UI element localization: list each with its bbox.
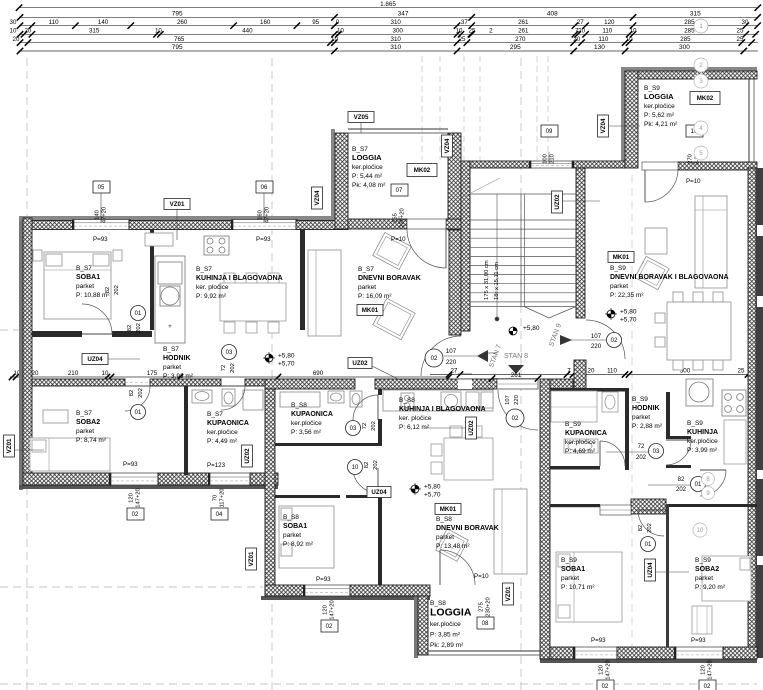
facade strip left outer — [19, 216, 23, 490]
svg-text:+5,80: +5,80 — [620, 309, 637, 316]
svg-text:VZ01: VZ01 — [6, 438, 13, 453]
wall B_S7 bottom middle — [158, 473, 210, 485]
door B_S7 soba1 01 upper — [82, 304, 112, 334]
furniture armchair B_S9 — [635, 256, 669, 289]
wall B_S9 bottom west — [550, 647, 575, 659]
svg-text:KUPAONICA: KUPAONICA — [207, 420, 249, 427]
wall B_S7 bottom west — [23, 473, 111, 485]
dim extension line x=537 — [536, 56, 538, 160]
door band stan8 entry — [497, 379, 538, 389]
staircase treads — [463, 178, 576, 321]
svg-text:107: 107 — [505, 395, 511, 405]
wall B_S8 top middle — [375, 379, 497, 389]
facade strip loggia B_S9 top — [621, 67, 757, 71]
wall B_S8 soba1 bottom west — [265, 585, 305, 596]
svg-text:300: 300 — [393, 28, 404, 35]
svg-text:25: 25 — [459, 36, 466, 43]
svg-text:Pk: 4,08 m²: Pk: 4,08 m² — [352, 182, 386, 189]
door B_S9 soba2 — [700, 470, 726, 496]
svg-text:25: 25 — [737, 28, 744, 35]
svg-text:25: 25 — [737, 36, 744, 43]
wall B_S8 B_S9 divider — [540, 379, 550, 659]
window tag 10 loggia B_S9 — [686, 125, 703, 165]
svg-text:440: 440 — [242, 28, 253, 35]
svg-text:MK01: MK01 — [440, 506, 457, 513]
wall loggia B_S7 bottom east stub — [446, 219, 461, 229]
room label B_S7 SOBA1 — [76, 265, 110, 299]
svg-text:B_S8: B_S8 — [399, 397, 415, 404]
window tag 06 — [256, 181, 273, 223]
svg-text:82: 82 — [678, 477, 685, 483]
svg-text:160: 160 — [258, 210, 264, 220]
svg-text:27: 27 — [451, 368, 458, 375]
door B_S9 loggia — [642, 162, 678, 202]
facade strip bottom B_S9 — [540, 659, 757, 663]
tag UZ02 stair2 — [466, 417, 477, 439]
svg-text:117+20: 117+20 — [220, 488, 226, 507]
svg-text:120: 120 — [323, 605, 329, 615]
svg-text:parket: parket — [695, 575, 713, 582]
svg-text:VZ04: VZ04 — [314, 190, 321, 205]
svg-text:UZ04: UZ04 — [371, 489, 387, 496]
dims 82/202 B_S9 soba1 door — [638, 523, 653, 533]
furniture sofa B_S7 dnevni — [308, 250, 341, 336]
svg-text:P: 3,85 m²: P: 3,85 m² — [430, 632, 461, 639]
wall loggia B_S7 west — [335, 133, 348, 229]
svg-text:02: 02 — [431, 356, 438, 362]
dim line middle 690 — [275, 370, 452, 380]
furniture kitchen B_S9 — [578, 379, 746, 464]
svg-text:147+20: 147+20 — [606, 660, 612, 680]
svg-text:B_S7: B_S7 — [76, 410, 92, 417]
svg-text:P=10: P=10 — [391, 236, 406, 243]
grid axis line y=330 left margin — [0, 329, 23, 331]
door circle 02 stan9 entry — [607, 333, 622, 348]
svg-text:B_S8: B_S8 — [283, 514, 299, 521]
svg-text:02: 02 — [326, 624, 333, 630]
tag MK01 B_S9 — [608, 252, 634, 263]
svg-text:parket: parket — [632, 414, 650, 421]
grid axis line y=684 — [0, 683, 757, 685]
svg-text:82: 82 — [638, 525, 644, 531]
furniture dining table B_S8 — [431, 426, 493, 480]
partition B_S9 kupaonica south east — [625, 466, 629, 470]
furniture dresser B_S7 soba2 — [43, 410, 68, 423]
tag VZ04 stair west — [442, 135, 453, 157]
wall stairwell top east of door — [572, 161, 625, 168]
svg-text:P: 22,35 m²: P: 22,35 m² — [610, 292, 644, 299]
svg-text:202: 202 — [676, 487, 687, 493]
svg-text:P: 16,09 m²: P: 16,09 m² — [358, 293, 392, 300]
svg-text:120: 120 — [701, 665, 707, 675]
window tag 02 B_S9 soba1 — [597, 660, 614, 690]
room label B_S9 LOGGIA top — [644, 85, 678, 128]
window 06 B_S7 kitchen — [231, 220, 298, 230]
svg-text:20: 20 — [24, 28, 31, 35]
tag MK01 B_S7 — [357, 305, 383, 316]
svg-text:10: 10 — [337, 28, 344, 35]
dimension line row6 — [17, 44, 758, 54]
partition B_S7 kitchen/dnevni — [300, 229, 305, 330]
svg-text:parket: parket — [163, 364, 181, 371]
wall stairwell top west of door — [470, 161, 531, 168]
dims 82/202 B_S9 kuhinja — [648, 477, 690, 493]
dims 107/220 stan9 entry — [570, 333, 606, 350]
door B_S7 hodnik 01 lower — [125, 386, 150, 411]
dim extension line x=464 — [463, 56, 465, 160]
svg-text:P=93: P=93 — [123, 461, 138, 468]
svg-text:25: 25 — [469, 28, 476, 35]
svg-text:202: 202 — [114, 285, 120, 295]
door band B_S9 soba1 — [600, 505, 631, 515]
tag VZ01 top wall — [164, 199, 190, 210]
wall B_S8 west — [265, 389, 275, 596]
svg-text:02: 02 — [512, 416, 519, 422]
svg-text:30: 30 — [10, 19, 17, 26]
svg-text:B_S7: B_S7 — [352, 146, 368, 153]
svg-text:+5,70: +5,70 — [278, 361, 295, 368]
wall B_S7 soba2 north east2 — [245, 379, 265, 386]
axis bubble 5 — [694, 146, 708, 160]
grid axis line y=587 — [0, 586, 263, 588]
svg-text:UZ04: UZ04 — [87, 356, 103, 363]
svg-text:09: 09 — [546, 129, 553, 135]
leader VZ05 — [360, 122, 362, 133]
svg-text:202: 202 — [636, 455, 647, 461]
room label B_S9 DNEVNI BORAVAK I BLAGOVAONA — [610, 265, 729, 299]
furniture bed B_S8 soba1 — [279, 506, 334, 568]
svg-text:05: 05 — [98, 185, 105, 191]
svg-text:ker.pločice: ker.pločice — [430, 621, 461, 628]
entry triangle stan7 — [477, 350, 488, 362]
leader UZ02 stair — [563, 200, 600, 202]
svg-text:270: 270 — [515, 36, 526, 43]
svg-text:220: 220 — [514, 395, 520, 405]
wall right outer — [748, 168, 756, 658]
svg-text:20: 20 — [13, 36, 20, 43]
svg-text:parket: parket — [76, 428, 94, 435]
svg-text:408: 408 — [547, 11, 558, 18]
svg-text:DNEVNI BORAVAK: DNEVNI BORAVAK — [436, 525, 499, 532]
wall B_S7 top segment east — [296, 221, 348, 230]
svg-text:Pk: 4,21 m²: Pk: 4,21 m² — [644, 121, 678, 128]
leader 05 — [100, 193, 102, 217]
window 02 B_S9 soba1 — [573, 647, 619, 659]
door B_S8 soba1 10 — [353, 468, 378, 493]
partition B_S7 kitchen west — [150, 229, 154, 330]
svg-text:UZ02: UZ02 — [352, 360, 368, 367]
svg-text:310: 310 — [390, 44, 401, 51]
svg-text:140: 140 — [98, 19, 109, 26]
svg-text:P: 9,20 m²: P: 9,20 m² — [695, 584, 726, 591]
svg-text:B_S9: B_S9 — [632, 396, 648, 403]
tag MK02 B_S7 — [407, 164, 437, 177]
svg-text:ker. pločice: ker. pločice — [399, 415, 432, 422]
svg-text:ker.pločice: ker.pločice — [644, 103, 675, 110]
loggia B_S9 east glazing — [749, 79, 754, 162]
svg-text:KUHINJA: KUHINJA — [687, 429, 718, 436]
tag VZ01 B_S9 divider — [503, 583, 514, 605]
right facade dark strip — [756, 168, 763, 658]
window tag 07 — [391, 184, 408, 228]
svg-text:02: 02 — [132, 512, 139, 518]
svg-text:KUPAONICA: KUPAONICA — [565, 430, 607, 437]
tag VZ05 — [348, 112, 374, 123]
furniture bed B_S9 soba2 — [692, 556, 751, 634]
svg-text:UZ02: UZ02 — [554, 194, 561, 210]
svg-text:270: 270 — [688, 154, 694, 164]
svg-text:315: 315 — [690, 11, 701, 18]
svg-text:100: 100 — [543, 154, 549, 164]
svg-text:10: 10 — [456, 28, 463, 35]
svg-text:P=10: P=10 — [474, 573, 489, 580]
svg-text:KUPAONICA: KUPAONICA — [291, 411, 333, 418]
partition B_S8 soba1 north east — [346, 495, 380, 498]
svg-text:P: 3,56 m²: P: 3,56 m² — [291, 429, 322, 436]
furniture bed B_S9 soba1 — [556, 552, 622, 622]
svg-text:20: 20 — [573, 36, 580, 43]
dimension line row5 — [13, 36, 758, 46]
svg-text:P: 3,99 m²: P: 3,99 m² — [687, 447, 718, 454]
svg-text:B_S7: B_S7 — [163, 346, 179, 353]
svg-text:690: 690 — [313, 370, 324, 377]
svg-text:B_S8: B_S8 — [291, 402, 307, 409]
svg-text:VZ01: VZ01 — [505, 586, 512, 601]
partition B_S9 hodnik east — [666, 392, 670, 439]
svg-text:120: 120 — [129, 493, 135, 503]
dims 107/220 stan8 entry — [505, 395, 520, 405]
svg-text:SOBA2: SOBA2 — [695, 566, 719, 573]
dims 72/202 B_S8 kupaonica door — [362, 421, 377, 431]
elevation marker B_S8 — [409, 483, 441, 499]
elevation marker B_S9 — [605, 308, 637, 324]
svg-text:SOBA1: SOBA1 — [561, 566, 585, 573]
room label B_S7 LOGGIA — [352, 146, 386, 189]
door D9 stair entry — [529, 161, 574, 168]
wall loggia B_S7 bottom west of door — [348, 219, 407, 229]
window tag 09 — [541, 125, 558, 164]
partition B_S8 soba1 north — [275, 495, 340, 498]
furniture armchair1 B_S7 dnevni — [373, 232, 412, 269]
furniture kitchen counter B_S7 — [155, 256, 185, 343]
svg-text:P: 3,93 m²: P: 3,93 m² — [163, 373, 194, 380]
svg-text:P: 2,88 m²: P: 2,88 m² — [632, 423, 663, 430]
svg-text:255: 255 — [393, 213, 399, 223]
wall B_S8 top west — [265, 379, 355, 389]
dims 82/202 B_S8 soba1 door — [364, 460, 379, 470]
wall B_S8 loggia west — [418, 596, 428, 655]
svg-text:UZ02: UZ02 — [468, 420, 475, 436]
svg-text:2: 2 — [489, 28, 493, 35]
svg-text:03: 03 — [653, 449, 660, 455]
svg-text:P=93: P=93 — [93, 236, 108, 243]
wall B_S9 bottom middle — [617, 647, 676, 659]
grid axis line x=521 — [520, 58, 522, 690]
svg-text:202: 202 — [647, 523, 653, 533]
svg-text:10: 10 — [630, 28, 637, 35]
room label B_S7 KUHINJA I BLAGOVAONA — [196, 266, 283, 300]
facade strip bottom B_S8 soba1 — [261, 596, 430, 600]
svg-text:LOGGIA: LOGGIA — [352, 153, 382, 162]
loggia B_S7 open parapet — [348, 129, 448, 133]
door B_S7 loggia — [407, 219, 446, 268]
door B_S7 kupaonica 03 — [221, 386, 245, 410]
svg-text:0: 0 — [336, 19, 340, 26]
grid axis line x=632 — [631, 175, 633, 648]
door B_S9 soba1 01 — [638, 510, 664, 536]
svg-text:P: 10,71 m²: P: 10,71 m² — [561, 584, 595, 591]
wall B_S7 dnevni east — [449, 230, 461, 335]
axis bubble 9 — [702, 487, 715, 500]
svg-text:10: 10 — [626, 36, 633, 43]
dim extension line x=548 — [547, 56, 549, 160]
svg-text:20: 20 — [588, 368, 595, 375]
axis bubble 10 — [693, 523, 707, 537]
grid axis line x=27 — [26, 58, 28, 690]
window tag 05 — [93, 181, 110, 223]
dim 261 stan8 — [489, 372, 541, 382]
room label B_S8 KUHINJA I BLAGOVAONA — [399, 397, 486, 431]
svg-text:B_S8: B_S8 — [436, 516, 452, 523]
room label B_S9 KUHINJA — [687, 420, 718, 454]
svg-text:ker. pločice: ker. pločice — [196, 284, 229, 291]
svg-text:7: 7 — [567, 368, 571, 375]
wall B_S7 soba2 north east — [150, 379, 221, 386]
svg-text:37: 37 — [461, 19, 468, 26]
svg-text:LOGGIA: LOGGIA — [430, 607, 472, 619]
dimension line row4 — [10, 28, 759, 38]
svg-text:HODNIK: HODNIK — [163, 355, 191, 362]
svg-text:72: 72 — [362, 423, 368, 429]
svg-text:ker.pločice: ker.pločice — [352, 164, 383, 171]
entry triangle stan7 line — [486, 352, 497, 354]
door circle 01 B_S9 kuhinja — [691, 477, 706, 492]
door B_S8 loggia — [440, 550, 475, 585]
svg-text:VZ04: VZ04 — [600, 118, 607, 133]
svg-text:parket: parket — [436, 534, 454, 541]
svg-text:SOBA1: SOBA1 — [76, 274, 100, 281]
axis bubble 1 — [694, 19, 708, 33]
svg-text:160: 160 — [260, 19, 271, 26]
svg-text:300: 300 — [679, 44, 690, 51]
furniture wardrobe B_S9 dnevni — [695, 196, 727, 288]
step threshold stan7 landing — [458, 374, 472, 389]
svg-text:DNEVNI BORAVAK: DNEVNI BORAVAK — [358, 275, 421, 282]
svg-text:P=123: P=123 — [207, 462, 226, 469]
door circle 01 B_S9 soba1 — [641, 537, 656, 552]
svg-text:P: 13,48 m²: P: 13,48 m² — [436, 543, 470, 550]
svg-text:120: 120 — [604, 19, 615, 26]
grid axis line x=272 — [271, 58, 273, 690]
svg-text:110: 110 — [602, 28, 612, 35]
partition B_S9 kupaonica north — [550, 388, 628, 392]
facade strip loggia B_S9 west — [621, 67, 625, 168]
svg-text:1.865: 1.865 — [380, 1, 396, 8]
dims 82/202 B_S7 soba1 door — [105, 285, 120, 295]
window 02 B_S7 soba2 — [109, 473, 160, 485]
tag UZ02 B_S7 kupaonica — [242, 445, 253, 467]
wall B_S9 soba north hatch — [631, 499, 666, 514]
dim extension line x=440 — [439, 56, 441, 160]
room label B_S8 SOBA1 — [283, 514, 314, 548]
tag MK01 B_S8 — [435, 504, 461, 515]
room label B_S8 DNEVNI BORAVAK — [436, 516, 499, 550]
wall stairwell west — [461, 161, 470, 331]
door circle 10 B_S8 soba1 — [348, 460, 363, 475]
svg-text:110: 110 — [49, 19, 59, 26]
svg-text:UZ04: UZ04 — [647, 562, 654, 578]
wall B_S7 top segment middle — [129, 221, 233, 230]
tag UZ02 stair — [552, 191, 563, 213]
svg-text:95: 95 — [312, 19, 319, 26]
svg-text:06: 06 — [261, 185, 268, 191]
wall stairwell east — [576, 168, 585, 318]
svg-text:20: 20 — [32, 370, 39, 377]
svg-text:295: 295 — [510, 44, 521, 51]
wall loggia B_S7 east — [448, 133, 461, 230]
door B_S8 kupaonica 03 — [353, 395, 378, 420]
svg-text:72: 72 — [638, 444, 645, 450]
room label B_S8 KUPAONICA — [291, 402, 333, 436]
door B_S9 kuhinja 03 — [666, 440, 691, 465]
svg-text:230+20: 230+20 — [486, 597, 492, 617]
door circle 01 B_S7 hodnik — [131, 405, 146, 420]
furniture dining table B_S7 — [220, 273, 286, 333]
door circle 01 B_S7 soba1 — [131, 306, 146, 321]
tag UZ04 B_S9 — [645, 559, 656, 581]
svg-text:MK02: MK02 — [414, 167, 431, 174]
svg-text:202: 202 — [371, 421, 377, 431]
svg-text:10: 10 — [331, 36, 338, 43]
window tag 04 B_S7 kupaonica — [211, 488, 228, 520]
svg-text:P: 5,62 m²: P: 5,62 m² — [644, 112, 675, 119]
partition B_S7 soba1 south east — [112, 331, 152, 337]
loggia B_S8 open parapet — [428, 651, 540, 655]
elevation marker B_S7 — [263, 352, 295, 368]
wall B_S9 soba1 north thin — [550, 504, 600, 507]
facade strip loggia B_S8 west — [414, 596, 418, 658]
window tag 02 B_S9 soba2 — [699, 660, 716, 690]
svg-text:VZ01: VZ01 — [170, 201, 185, 208]
wall B_S7 top segment west — [23, 221, 74, 230]
dimension line row3 — [10, 19, 761, 29]
svg-text:110: 110 — [607, 368, 617, 375]
svg-text:10: 10 — [697, 528, 704, 534]
svg-text:*: * — [168, 323, 172, 334]
dim line left apartment 10/20/210/10/175 — [9, 370, 278, 380]
svg-text:ker.pločice: ker.pločice — [291, 420, 322, 427]
svg-text:70: 70 — [213, 495, 219, 501]
axis bubble 2 — [694, 58, 708, 72]
dim line right apartment 27/7/20/110/300/25 — [430, 368, 757, 378]
svg-text:01: 01 — [645, 542, 652, 548]
svg-text:47+20: 47+20 — [102, 207, 108, 223]
svg-text:03: 03 — [350, 426, 357, 432]
svg-text:MK02: MK02 — [697, 95, 714, 102]
wall loggia B_S9 bottom east of door — [678, 162, 757, 170]
svg-text:B_S9: B_S9 — [695, 557, 711, 564]
room label B_S9 SOBA2 — [695, 557, 726, 591]
axis bubble 4 — [694, 121, 708, 135]
svg-text:147+20: 147+20 — [136, 488, 142, 508]
svg-text:ker.pločice: ker.pločice — [207, 429, 238, 436]
partition B_S8 kupaonica east bottom — [378, 419, 382, 445]
svg-text:P: 9,92 m²: P: 9,92 m² — [196, 293, 227, 300]
svg-text:140: 140 — [95, 210, 101, 220]
room label B_S7 KUPAONICA — [207, 411, 249, 445]
svg-text:07: 07 — [396, 188, 403, 194]
svg-text:P=93: P=93 — [256, 236, 271, 243]
